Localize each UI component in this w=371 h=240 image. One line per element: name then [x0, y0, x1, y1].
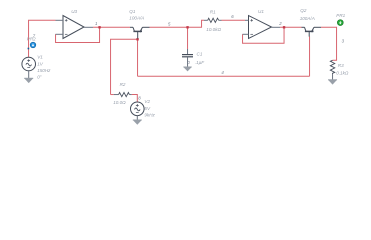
resistor R2 — [114, 92, 132, 96]
wires red — [29, 20, 337, 102]
wire U1 output to Q2 — [280, 26, 302, 28]
capacitor C1 — [182, 49, 193, 67]
svg-text:100A/A: 100A/A — [129, 15, 144, 20]
svg-text:R2: R2 — [120, 82, 126, 87]
probe PR2 — [28, 42, 36, 49]
svg-text:U3: U3 — [71, 9, 77, 14]
svg-text:10.0Ω: 10.0Ω — [113, 100, 126, 105]
svg-text:R1: R1 — [210, 9, 216, 14]
svg-text:100A/A: 100A/A — [300, 16, 315, 21]
svg-text:C1: C1 — [197, 51, 203, 56]
junction node 2 — [283, 26, 285, 28]
wire Q1 emitter to riser to R1 — [150, 20, 205, 27]
resistor R1 — [204, 18, 222, 22]
svg-text:5V: 5V — [144, 106, 151, 111]
ground C1 — [183, 67, 191, 71]
wire cap branch from top rail — [187, 27, 189, 49]
probe PR1 — [337, 20, 343, 26]
wire U1 feedback loop — [243, 27, 284, 43]
svg-text:PR1: PR1 — [336, 13, 345, 18]
svg-text:Q2: Q2 — [300, 8, 307, 13]
ground R3 — [328, 80, 337, 85]
svg-text:Q1: Q1 — [129, 9, 136, 14]
junction node 1 — [98, 26, 100, 28]
wire U3 feedback loop — [56, 27, 100, 42]
svg-text:R3: R3 — [338, 63, 344, 68]
svg-text:V1: V1 — [37, 55, 43, 60]
junction cap tap — [186, 26, 188, 28]
wire U3 output to Q1 collector — [93, 26, 130, 28]
svg-text:0°: 0° — [37, 75, 42, 80]
op-amp U1 — [243, 16, 281, 39]
wire V1 to U3 + input — [29, 20, 56, 57]
source V2 — [131, 102, 145, 120]
svg-text:1V: 1V — [37, 61, 44, 66]
svg-text:150Hz: 150Hz — [37, 68, 51, 73]
resistor R3 — [330, 60, 334, 80]
wire bottom rail node 4 — [138, 75, 310, 77]
op-amp U3 — [56, 16, 94, 39]
wire Q2 base riser — [309, 37, 311, 77]
wire Q1 base to R2 branch — [111, 39, 138, 94]
ground V2 — [133, 120, 142, 125]
wire Q2 emitter to R3 — [321, 27, 337, 60]
svg-text:0.1kΩ: 0.1kΩ — [336, 70, 349, 75]
svg-text:2: 2 — [278, 21, 282, 26]
svg-text:9kHz: 9kHz — [144, 113, 155, 118]
ground V1 — [24, 78, 33, 83]
wire Q1 base down to bottom rail — [137, 39, 139, 76]
source V1 — [22, 57, 36, 78]
wire R2 left lead — [111, 94, 114, 96]
svg-text:PR2: PR2 — [27, 37, 36, 42]
svg-text:V2: V2 — [144, 99, 150, 104]
transistor Q2 — [302, 27, 322, 36]
Q2 emitter arrow — [311, 29, 314, 32]
Q1 emitter arrow — [139, 29, 142, 32]
wire R2 to V2 — [132, 95, 138, 102]
wire R1 to U1 + input — [222, 19, 246, 21]
junction Q1 base — [136, 38, 138, 40]
svg-text:U1: U1 — [258, 9, 264, 14]
svg-text:10.0kΩ: 10.0kΩ — [206, 27, 221, 32]
svg-text:.1µF: .1µF — [195, 60, 205, 65]
transistor Q1 — [130, 27, 150, 38]
